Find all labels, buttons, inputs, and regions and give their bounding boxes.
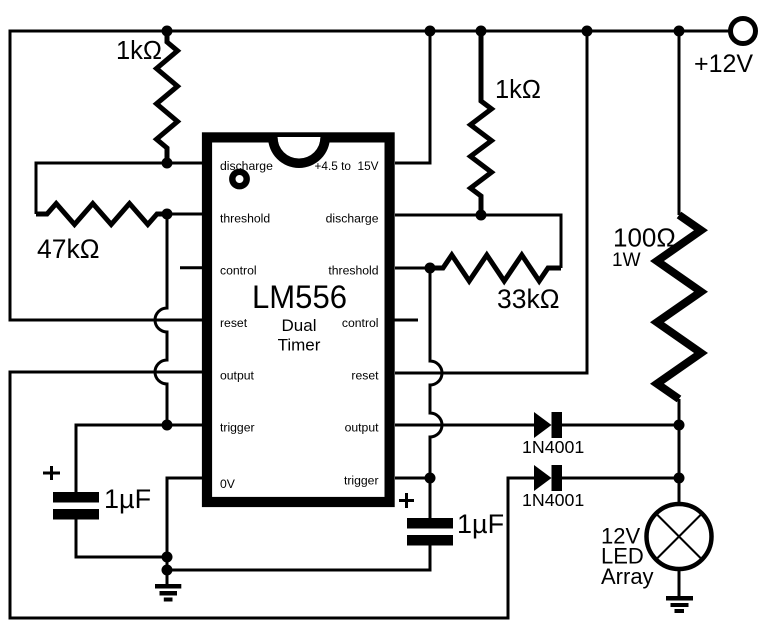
U1 notch arc	[268, 137, 330, 168]
node: rail / +V vertical	[425, 26, 436, 37]
node: trigger-right / C2	[425, 473, 436, 484]
svg-text:control: control	[342, 316, 379, 330]
wire: rail to +12V terminal	[679, 30, 730, 33]
svg-text:+4.5 to 15V: +4.5 to 15V	[315, 159, 379, 173]
node: 33k / threshold-right	[425, 263, 436, 274]
svg-text:reset: reset	[220, 316, 248, 330]
svg-text:reset: reset	[351, 368, 379, 382]
node: D2 cathode / LED top	[674, 473, 685, 484]
wire: 0V pin down to ground node	[167, 478, 203, 584]
ground GND1 (main)	[155, 584, 181, 602]
wire: C1 bottom to ground node	[76, 519, 167, 557]
svg-text:1N4001: 1N4001	[522, 490, 584, 510]
U1 pin stub control (left)	[180, 266, 203, 269]
resistor R4 33k	[430, 255, 561, 281]
U1 pin-1 indicator	[232, 172, 246, 186]
wire: ground node to C2 bottom	[167, 545, 430, 570]
wire: discharge(left) to 47k top loop	[36, 163, 203, 214]
svg-text:threshold: threshold	[328, 264, 378, 278]
svg-text:1kΩ: 1kΩ	[495, 76, 541, 104]
capacitor C2 1uF plate bottom	[407, 535, 453, 546]
node: rail / reset-right vertical	[582, 26, 593, 37]
wire: left edge rail down to reset pin (left)	[10, 30, 202, 321]
capacitor C1 1uF plate top	[53, 492, 99, 503]
svg-text:Dual: Dual	[282, 316, 317, 335]
wire: top rail down to R5	[678, 31, 681, 215]
wire: +4.5-15V pin up to top rail	[395, 31, 430, 163]
node: D1 cathode / R5 bottom	[674, 420, 685, 431]
C1 polarity +	[43, 466, 60, 480]
node: ground node lower	[162, 565, 173, 576]
node: R2 bottom / discharge-right	[476, 210, 487, 221]
node: R1 bottom / discharge-left	[162, 158, 173, 169]
U1 pin stub control (right)	[394, 319, 418, 322]
svg-text:1W: 1W	[612, 250, 641, 271]
wire: LED bottom to ground	[678, 569, 681, 596]
wire: +12V top rail	[10, 30, 730, 33]
svg-text:Timer: Timer	[278, 336, 321, 355]
node: trigger-left / C1	[162, 420, 173, 431]
resistor R5 100R 1W	[657, 215, 701, 399]
wire: trigger pin (right) to C2 node	[395, 477, 430, 480]
svg-text:output: output	[345, 421, 379, 435]
svg-text:discharge: discharge	[326, 211, 379, 225]
svg-text:0V: 0V	[220, 477, 236, 491]
svg-text:100Ω: 100Ω	[613, 223, 676, 253]
terminal +12V	[731, 19, 756, 44]
svg-text:threshold: threshold	[220, 211, 270, 225]
svg-text:1kΩ: 1kΩ	[116, 37, 162, 65]
capacitor C1 1uF plate bottom	[53, 509, 99, 520]
capacitor C2 1uF plate top	[407, 518, 453, 529]
wire: D2 cathode to LED node	[562, 477, 679, 480]
svg-text:1µF: 1µF	[457, 509, 504, 539]
diode D2 1N4001 triangle	[534, 465, 552, 491]
U1 notch white inner	[278, 137, 321, 159]
ground GND2 (LED)	[666, 596, 693, 613]
resistor R1 1k (left)	[157, 31, 178, 163]
lamp X stroke 1	[658, 515, 701, 558]
wire: R5 bottom through diode nodes to LED	[678, 399, 681, 504]
svg-text:control: control	[220, 264, 257, 278]
wire: threshold-to-trigger vertical with wire hops (right)	[430, 268, 442, 478]
svg-text:trigger: trigger	[344, 474, 379, 488]
diode D1 cathode bar	[552, 412, 563, 438]
diode D1 1N4001 triangle	[534, 412, 552, 438]
svg-text:+12V: +12V	[694, 50, 753, 78]
wire: C2 top lead	[429, 478, 432, 518]
node: rail / R2 top	[476, 26, 487, 37]
wire: trigger pin (left) to C1 top	[76, 425, 203, 492]
wire: 47k right lead to threshold pin (left)	[167, 213, 203, 216]
C2 polarity +	[399, 493, 414, 508]
wire: threshold pin (right) to 33k	[395, 267, 430, 270]
wire: threshold-to-trigger vertical with wire hops (left)	[155, 214, 167, 425]
wire: output pin (left) loop to bottom rail and diode D2 anode	[10, 372, 534, 618]
svg-text:discharge: discharge	[220, 159, 273, 173]
diode D2 cathode bar	[552, 465, 563, 491]
svg-text:trigger: trigger	[220, 421, 255, 435]
op-amp U1 LM556 body	[207, 137, 390, 502]
svg-text:Array: Array	[601, 564, 654, 589]
svg-text:47kΩ: 47kΩ	[37, 234, 100, 264]
node: ground node upper	[162, 552, 173, 563]
node: rail / R1 top	[162, 26, 173, 37]
svg-text:LM556: LM556	[252, 279, 347, 315]
node: rail / R5 branch	[674, 26, 685, 37]
wire: output pin (right) to diode D1 anode	[395, 424, 534, 427]
svg-text:1N4001: 1N4001	[522, 437, 584, 457]
svg-text:33kΩ: 33kΩ	[497, 284, 560, 314]
node: 47k / threshold-left	[162, 209, 173, 220]
wire: D1 cathode to LED node	[562, 424, 679, 427]
resistor R2 1k (right)	[471, 31, 492, 215]
svg-text:1µF: 1µF	[104, 484, 151, 514]
wire: reset pin (right) up to top rail	[395, 31, 587, 373]
lamp X stroke 2	[658, 515, 701, 558]
svg-text:output: output	[220, 368, 254, 382]
resistor R3 47k	[36, 204, 167, 225]
wire: discharge(right) over to 33k right end	[395, 215, 561, 268]
lamp 12V LED array circle	[647, 504, 712, 569]
